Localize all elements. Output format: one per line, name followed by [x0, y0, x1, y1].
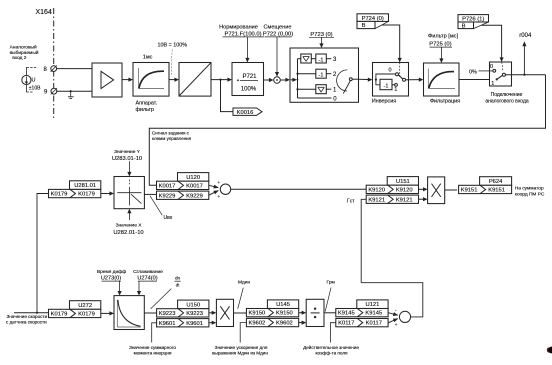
svg-text:+: +: [395, 322, 398, 327]
svg-text:X164: X164: [36, 9, 52, 16]
svg-text:U281.01: U281.01: [74, 183, 96, 189]
svg-text:U274(0): U274(0): [137, 276, 157, 282]
svg-text:Гст: Гст: [347, 198, 355, 204]
svg-text:-1: -1: [384, 83, 389, 89]
svg-text:Значение ускорения для: Значение ускорения для: [215, 345, 268, 350]
svg-text:Аналоговый: Аналоговый: [10, 44, 37, 51]
svg-text:10В = 100%: 10В = 100%: [158, 43, 188, 49]
svg-text:выражения Мдин из Мдин: выражения Мдин из Мдин: [212, 351, 268, 356]
svg-text:U145: U145: [276, 302, 290, 308]
svg-text:K9602: K9602: [249, 321, 266, 327]
svg-text:Значение скорости: Значение скорости: [7, 314, 48, 319]
svg-text:U150: U150: [186, 302, 200, 308]
svg-text:K9229: K9229: [186, 193, 203, 199]
svg-text:U282.01-10: U282.01-10: [113, 230, 143, 236]
svg-text:+: +: [218, 180, 221, 185]
svg-text:U: U: [32, 77, 36, 83]
svg-text:В: В: [462, 24, 466, 30]
svg-text:U121: U121: [366, 302, 380, 308]
svg-text:K9120: K9120: [396, 187, 413, 193]
svg-text:K0017: K0017: [186, 183, 203, 189]
svg-text:P722 (0,00): P722 (0,00): [263, 31, 293, 37]
svg-text:коэфф-та поля: коэфф-та поля: [315, 351, 348, 356]
svg-text:-1: -1: [319, 57, 324, 63]
svg-text:K9120: K9120: [368, 187, 385, 193]
svg-text:K9229: K9229: [159, 193, 176, 199]
svg-text:K9602: K9602: [276, 321, 293, 327]
svg-text:K0179: K0179: [78, 192, 95, 198]
svg-text:Мдин: Мдин: [238, 279, 250, 285]
svg-text:1: 1: [394, 87, 397, 93]
svg-text:Сглаживание: Сглаживание: [133, 269, 163, 275]
svg-text:1мс: 1мс: [143, 55, 153, 61]
svg-text:K0179: K0179: [78, 312, 95, 318]
svg-text:K0117: K0117: [338, 321, 354, 327]
svg-text:0%: 0%: [469, 69, 477, 75]
svg-text:P725 (0): P725 (0): [429, 42, 451, 48]
svg-text:0: 0: [388, 68, 391, 74]
svg-text:клемм управления: клемм управления: [152, 136, 192, 141]
svg-text:Смещение: Смещение: [264, 25, 292, 31]
svg-text:K9121: K9121: [368, 197, 385, 203]
svg-text:коорд ПМ РС: коорд ПМ РС: [515, 191, 545, 197]
svg-text:Действительное значение: Действительное значение: [303, 344, 359, 350]
svg-text:P721.F(100.0): P721.F(100.0): [224, 31, 261, 37]
svg-text:выбираемый: выбираемый: [10, 49, 39, 56]
svg-text:K9601: K9601: [159, 321, 176, 327]
svg-text:K9121: K9121: [396, 197, 413, 203]
svg-text:Время дифф: Время дифф: [97, 269, 126, 275]
svg-text:фильтр: фильтр: [136, 107, 154, 113]
svg-text:K9151: K9151: [488, 188, 505, 194]
svg-text:1: 1: [491, 81, 494, 87]
svg-text:r004: r004: [519, 33, 532, 39]
svg-text:с датчика скорости: с датчика скорости: [6, 320, 47, 325]
svg-text:±10В: ±10В: [29, 86, 41, 92]
svg-text:K9223: K9223: [159, 311, 176, 317]
svg-text:U273(0): U273(0): [101, 276, 121, 282]
svg-text:Значение суммарного: Значение суммарного: [129, 345, 176, 350]
svg-text:K9601: K9601: [186, 321, 203, 327]
svg-text:K9145: K9145: [365, 311, 382, 317]
svg-text:Сигнал задания с: Сигнал задания с: [152, 130, 190, 135]
svg-text:K9150: K9150: [276, 311, 293, 317]
svg-text:Грм: Грм: [327, 279, 335, 285]
svg-text:Фильтр [мс]: Фильтр [мс]: [428, 33, 459, 39]
svg-text:U283.01-10: U283.01-10: [112, 156, 142, 162]
svg-text:Инверсия: Инверсия: [372, 99, 396, 105]
svg-text:K0179: K0179: [51, 192, 68, 198]
svg-text:dn: dn: [175, 275, 180, 280]
svg-text:K9223: K9223: [186, 311, 203, 317]
svg-text:P721: P721: [242, 74, 257, 80]
svg-text:100%: 100%: [241, 87, 257, 93]
svg-text:момента инерции: момента инерции: [134, 351, 172, 356]
svg-text:K0179: K0179: [51, 312, 68, 318]
svg-text:U272: U272: [78, 303, 92, 309]
svg-text:-1: -1: [319, 73, 324, 79]
svg-text:K0017: K0017: [159, 183, 176, 189]
svg-text:P624: P624: [489, 179, 503, 185]
svg-text:Подключение: Подключение: [491, 92, 523, 98]
svg-text:U151: U151: [396, 179, 410, 185]
svg-text:На сумматор: На сумматор: [515, 186, 544, 192]
svg-text:вход 2: вход 2: [12, 55, 27, 61]
svg-text:аналогового входа: аналогового входа: [485, 98, 529, 104]
svg-text:Значение Y: Значение Y: [114, 149, 141, 155]
svg-text:Нормирование: Нормирование: [219, 25, 258, 31]
svg-text:K9145: K9145: [338, 311, 355, 317]
svg-text:Uвх: Uвх: [164, 215, 173, 221]
svg-text:Значение X: Значение X: [116, 222, 143, 228]
svg-text:P723 (0): P723 (0): [310, 32, 332, 38]
svg-text:Фильтрация: Фильтрация: [430, 99, 460, 105]
svg-text:K0117: K0117: [366, 321, 382, 327]
svg-text:+: +: [218, 194, 221, 199]
svg-text:0: 0: [490, 64, 493, 70]
svg-text:В: В: [362, 23, 366, 29]
svg-text:K0016: K0016: [237, 110, 254, 116]
svg-text:U120: U120: [186, 175, 200, 181]
svg-text:K9150: K9150: [249, 311, 266, 317]
svg-text:Аппарат.: Аппарат.: [136, 101, 158, 107]
svg-text:K9151: K9151: [461, 188, 478, 194]
